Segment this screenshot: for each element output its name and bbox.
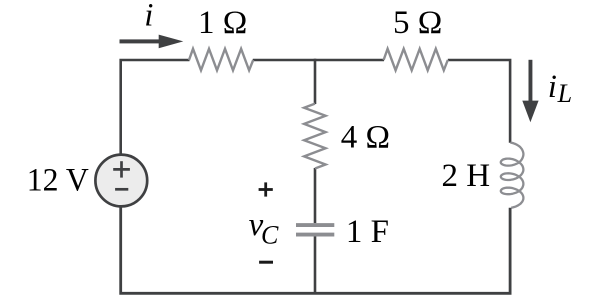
wire: top-right corner down to inductor top [448, 60, 510, 143]
svg-text:i: i [144, 0, 153, 34]
voltage source plus sign [113, 161, 130, 177]
resistor R1 (1 ohm) zigzag [189, 49, 253, 71]
inductor L (2 H) coil [501, 143, 524, 208]
svg-text:12 V: 12 V [27, 162, 89, 198]
svg-text:1 F: 1 F [346, 214, 389, 250]
wire: middle branch between R3 and capacitor [314, 168, 317, 223]
voltage source 12V circle [95, 155, 147, 207]
wire: source bottom, bottom rail, right riser up to inductor bottom [121, 207, 510, 293]
svg-text:1 Ω: 1 Ω [198, 5, 247, 41]
capacitor C (1 F) top plate [296, 223, 334, 227]
svg-text:i: i [548, 69, 557, 105]
capacitor plus polarity mark [259, 182, 273, 196]
capacitor minus polarity mark [259, 261, 273, 264]
wire: middle branch below capacitor [314, 236, 317, 293]
capacitor C (1 F) bottom plate [296, 233, 334, 237]
svg-text:2 H: 2 H [442, 158, 491, 194]
voltage source minus sign [115, 188, 128, 191]
svg-text:5 Ω: 5 Ω [393, 5, 442, 41]
wire: top-left run from R1 left end to source top [121, 60, 190, 154]
current arrow i (top left) [120, 35, 184, 49]
svg-text:4 Ω: 4 Ω [341, 120, 390, 156]
resistor R2 (5 ohm) zigzag [384, 49, 448, 71]
svg-text:L: L [557, 79, 572, 108]
resistor R3 (4 ohm) vertical zigzag [304, 104, 326, 169]
svg-text:C: C [261, 221, 279, 250]
wire: middle branch upper [314, 59, 317, 104]
wire: top middle between R1 and R2 [253, 59, 384, 62]
current arrow iL (right side) [522, 60, 538, 122]
